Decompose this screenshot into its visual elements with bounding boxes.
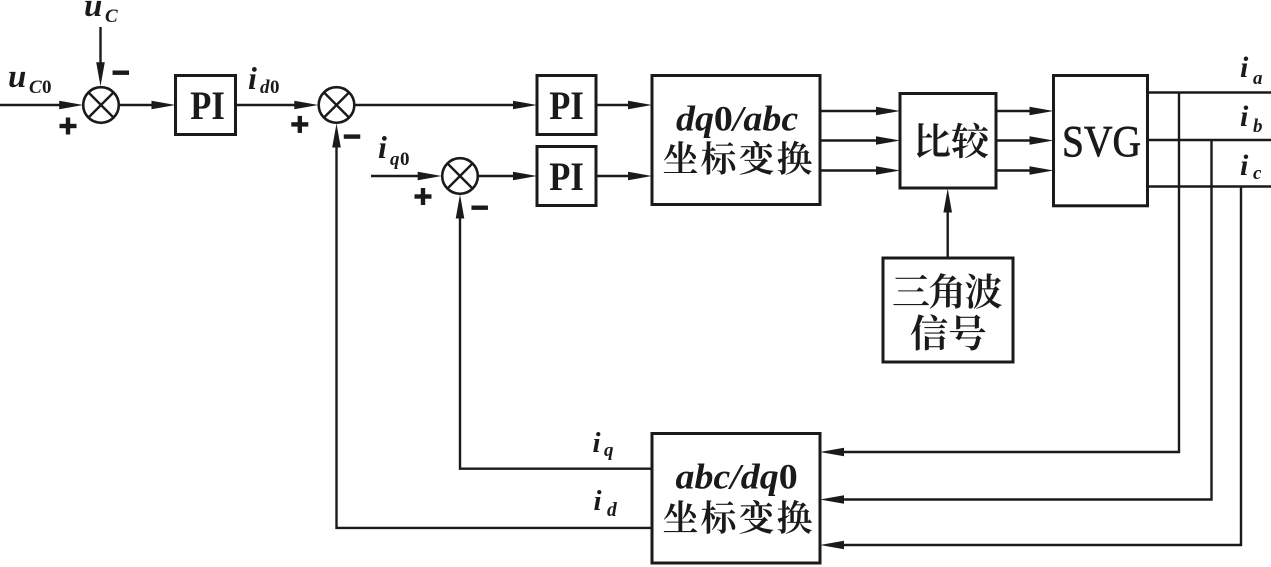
wire compare to SVG block 2 (996, 136, 1054, 145)
summing junction 3 (442, 158, 478, 194)
svg-text:PI: PI (549, 154, 584, 199)
svg-text:u: u (8, 59, 26, 95)
svg-text:q: q (390, 149, 400, 170)
svg-text:C: C (29, 77, 42, 98)
svg-text:i: i (1240, 100, 1249, 133)
block PI1 (176, 76, 236, 135)
svg-text:d: d (260, 77, 270, 98)
minus sign at summing junction 2 (344, 134, 361, 138)
label i_q0 (378, 129, 410, 170)
summing junction 2 (319, 87, 355, 123)
wire feedback i_a to abc/dq0 (820, 93, 1179, 457)
svg-text:i: i (1240, 149, 1249, 182)
label i_d0 (248, 60, 280, 98)
wire output i_a (1148, 91, 1271, 93)
svg-text:0: 0 (42, 77, 52, 98)
svg-text:c: c (1253, 163, 1262, 184)
label i_d feedback (594, 485, 618, 521)
wire compare to SVG block 1 (996, 107, 1054, 116)
block PI3 (537, 147, 596, 206)
svg-text:dq0/abc: dq0/abc (676, 99, 798, 139)
wire i_q feedback to junction3 (456, 195, 652, 469)
minus sign at summing junction 3 (471, 206, 488, 210)
wire PI3 to dq0/abc block (596, 172, 652, 181)
svg-text:i: i (594, 485, 602, 517)
wire PI1 to junction2 (236, 101, 319, 110)
wire i_q0 input (371, 172, 442, 181)
wire junction3 to PI3 (478, 172, 537, 181)
wire compare to SVG block 3 (996, 166, 1054, 175)
svg-text:PI: PI (190, 83, 225, 128)
svg-text:i: i (248, 60, 257, 96)
svg-text:d: d (607, 500, 617, 521)
wire u_C0 input (0, 101, 83, 110)
svg-text:q: q (604, 440, 614, 461)
svg-text:a: a (1253, 68, 1263, 89)
block compare (比较) (900, 94, 996, 189)
svg-text:u: u (84, 0, 102, 24)
wire output i_b (1148, 139, 1271, 141)
summing junction 1 (83, 87, 119, 123)
wire output i_c (1148, 185, 1271, 187)
svg-text:i: i (378, 129, 387, 165)
svg-text:0: 0 (400, 149, 410, 170)
block triangle wave signal (三角波信号) (883, 258, 1013, 362)
block SVG (1054, 76, 1148, 206)
plus sign at summing junction 3 (415, 188, 432, 205)
wire junction2 to PI2 (354, 101, 537, 110)
label i_b (1240, 100, 1263, 137)
svg-text:b: b (1253, 116, 1263, 137)
svg-text:0: 0 (270, 77, 280, 98)
wire dq0/abc to compare block 2 (820, 136, 900, 145)
label u_C (84, 0, 118, 27)
label u_C0 (8, 59, 52, 98)
wire i_d feedback to junction2 (332, 124, 652, 528)
block abc/dq0 coordinate transform (652, 434, 820, 564)
svg-text:SVG: SVG (1062, 117, 1141, 166)
wire u_C input (96, 27, 105, 86)
wire junction1 to PI1 (119, 101, 176, 110)
svg-text:PI: PI (549, 83, 584, 128)
wire dq0/abc to compare block 3 (820, 166, 900, 175)
wire dq0/abc to compare block 1 (820, 107, 900, 116)
block PI2 (537, 76, 596, 135)
block dq0/abc coordinate transform (652, 76, 820, 205)
plus sign at summing junction 2 (291, 116, 308, 133)
svg-text:C: C (105, 6, 118, 27)
wire feedback i_c to abc/dq0 (820, 187, 1241, 550)
wire triangle wave to compare (943, 189, 952, 259)
label i_c (1240, 149, 1262, 184)
wire feedback i_b to abc/dq0 (820, 140, 1212, 504)
minus sign at summing junction 1 (113, 71, 130, 75)
wire PI2 to dq0/abc block (596, 101, 652, 110)
label i_q feedback (593, 427, 615, 461)
svg-text:abc/dq0: abc/dq0 (676, 456, 798, 496)
label i_a (1240, 51, 1263, 89)
svg-text:i: i (1240, 51, 1249, 84)
svg-text:i: i (593, 427, 601, 459)
plus sign at summing junction 1 (60, 118, 77, 135)
